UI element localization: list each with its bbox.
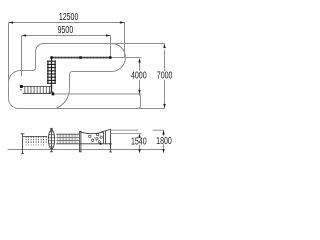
plan main beam: [52, 57, 111, 59]
panel rings: [89, 133, 103, 142]
elevation ground line: [8, 149, 164, 151]
svg-text:1800: 1800: [156, 135, 172, 146]
elevation tower T1 knob: [50, 128, 52, 130]
plan safety-area outline outer left and bottom part: [9, 44, 141, 109]
panel bottom nodes: [100, 143, 102, 145]
dimension 4000: [111, 58, 141, 91]
elevation tower T1: [48, 129, 54, 152]
plan rope start node: [52, 93, 55, 96]
elevation rings panel: [56, 132, 110, 144]
beam texture ticks: [55, 57, 106, 59]
panel specks: [94, 135, 100, 142]
arrow 9500 left: [22, 34, 27, 36]
svg-text:4000: 4000: [131, 69, 147, 80]
arrow 7000 up: [163, 44, 165, 49]
plan vertical ladder: [47, 58, 56, 93]
elevation net bridge grid: [58, 134, 78, 144]
plan safety-area outline upper part with right cap and inner island edge: [44, 44, 126, 109]
dimension 9500: [22, 36, 111, 77]
extension line 1540 top: [111, 133, 142, 135]
elevation right end frame: [101, 129, 112, 152]
elevation posts P2: [79, 132, 82, 152]
plan horizontal ladder: [23, 87, 51, 94]
elevation net bridge rails: [56, 134, 79, 140]
arrow 7000 down: [163, 104, 165, 109]
plan vertical ladder foot tick: [49, 91, 54, 93]
beam post node middle: [79, 56, 82, 59]
beam post node left: [50, 56, 53, 59]
arrow 1540 down: [138, 149, 140, 153]
elevation rope rail with rungs: [23, 135, 47, 137]
dimension 12500: [9, 23, 125, 83]
arrow 1800 down: [162, 149, 164, 153]
svg-text:7000: 7000: [157, 69, 173, 80]
elevation post P1: [21, 134, 25, 154]
plan horizontal ladder node tick: [20, 89, 22, 91]
dimension 1540: [139, 145, 141, 149]
beam post node right: [109, 56, 112, 59]
arrow 12500 right: [120, 21, 125, 23]
arrow 4000 up: [138, 58, 140, 63]
arrow 1540 up: [138, 134, 140, 138]
plan bottom rope line (strip top edge + extension line for 4000): [53, 93, 141, 95]
arrow 1800 up: [162, 130, 164, 134]
arrow 12500 left: [9, 21, 14, 23]
arrow 4000 down: [138, 90, 140, 95]
elevation rope rung dots: [26, 144, 44, 147]
svg-text:12500: 12500: [59, 11, 79, 22]
plan horizontal ladder left node: [20, 85, 23, 88]
extension line 1800 top: [111, 129, 165, 131]
svg-text:9500: 9500: [58, 24, 74, 35]
dimension 1800: [163, 130, 165, 149]
arrow 9500 right: [106, 34, 111, 36]
dimension 7000: [112, 44, 165, 109]
svg-text:1540: 1540: [131, 135, 147, 146]
